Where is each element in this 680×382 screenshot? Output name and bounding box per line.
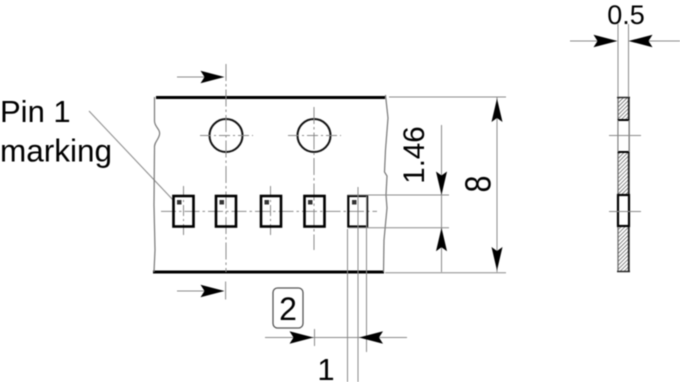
pocket 3 <box>261 196 281 227</box>
bottom dim pocket4 center tick <box>314 329 316 346</box>
pocket 5 <box>348 196 367 227</box>
centerline horizontal through sprocket 1 <box>200 135 253 137</box>
centerline horizontal through sprocket 2 <box>288 135 341 137</box>
tape bottom edge <box>153 271 384 274</box>
dim 8 extension top <box>389 96 506 98</box>
left break line <box>154 97 160 272</box>
bottom dim arrow left-pointing <box>359 331 383 343</box>
dim 1.46 extension bottom <box>348 227 449 229</box>
section view strip hatch middle <box>618 152 629 194</box>
svg-text:1: 1 <box>317 352 334 382</box>
dim 8 line <box>496 97 498 272</box>
centerline horizontal through pocket row <box>161 210 377 212</box>
right break line <box>384 95 389 272</box>
svg-text:Pin 1: Pin 1 <box>0 94 71 129</box>
section view strip hatch lower <box>618 227 629 272</box>
pin1 mark pocket 3 <box>265 200 270 205</box>
dim 0.5 arrow left pointing right <box>594 35 618 47</box>
section pocket cutout <box>618 195 629 226</box>
svg-text:2: 2 <box>279 291 297 327</box>
section pocket centerline <box>609 211 641 213</box>
svg-text:0.5: 0.5 <box>607 0 645 30</box>
centerline vertical pocket 1 <box>183 186 185 237</box>
sprocket hole 2 <box>298 119 331 152</box>
tape top edge <box>156 96 385 99</box>
sprocket hole 1 <box>210 119 243 152</box>
dim 1.46 arrow up <box>436 228 447 252</box>
feed arrow bottom head <box>201 285 225 297</box>
section strip outline <box>617 97 619 272</box>
bottom dim arrow right-pointing <box>290 331 314 343</box>
dim 1.46 arrow down <box>436 172 447 196</box>
dim 0.5 arrow right pointing left <box>629 35 653 47</box>
dim 0.5 extension right <box>628 24 630 97</box>
pin1 mark pocket 1 <box>177 200 182 205</box>
dim 0.5 line right <box>648 40 680 42</box>
section sprocket cutout <box>618 120 629 152</box>
feed arrow bottom tail <box>177 290 210 292</box>
section view strip body hatch upper <box>618 97 629 120</box>
bottom dim extension pocket5 center <box>357 187 359 382</box>
dim 1.46 extension top <box>348 194 449 196</box>
dim 8 arrow up <box>492 99 503 123</box>
bottom dim line <box>265 337 407 339</box>
dim 0.5 extension left <box>617 24 619 97</box>
dim 8 arrow down <box>492 247 503 271</box>
centerline vertical tick below tape for feed arrow <box>225 282 227 300</box>
dim 0.5 line left <box>570 40 600 42</box>
bottom dim extension pocket5 right <box>366 196 368 352</box>
pin1 mark pocket 2 <box>220 200 225 205</box>
dim 1.46 line <box>441 125 443 272</box>
centerline vertical pocket 3 <box>270 186 272 237</box>
pocket 4 <box>305 196 325 227</box>
pocket 1 <box>174 196 194 227</box>
feed arrow top tail <box>177 76 210 78</box>
bottom dim extension pocket5 left <box>347 229 349 382</box>
section sprocket centerline <box>609 135 641 137</box>
svg-text:8: 8 <box>458 176 499 193</box>
centerline vertical through sprocket 1 and pocket 2 <box>225 64 227 272</box>
dim 8 extension bottom <box>385 272 506 274</box>
pin1 mark pocket 5 <box>352 200 357 205</box>
pin1 mark pocket 4 <box>308 200 313 205</box>
leader line to pin1 mark <box>89 111 174 201</box>
pocket 2 <box>216 196 236 227</box>
svg-text:marking: marking <box>0 133 112 169</box>
dim 2 box <box>273 288 303 328</box>
feed arrow top head <box>201 71 225 83</box>
centerline vertical through sprocket 2 and pocket 4 <box>313 107 315 250</box>
svg-text:1.46: 1.46 <box>398 126 431 183</box>
